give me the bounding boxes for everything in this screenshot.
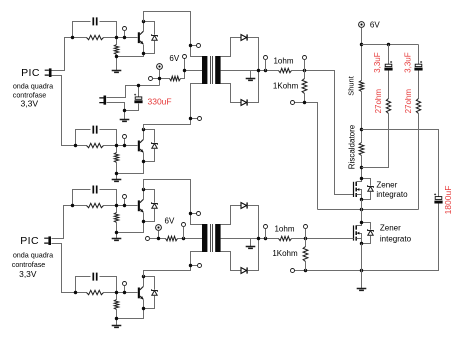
svg-text:6V: 6V — [165, 216, 175, 225]
svg-text:onda quadra: onda quadra — [13, 251, 53, 260]
svg-text:6V: 6V — [169, 54, 179, 63]
svg-text:6V: 6V — [370, 20, 380, 29]
svg-text:onda quadra: onda quadra — [13, 81, 53, 90]
svg-text:Shunt: Shunt — [347, 75, 356, 96]
svg-text:integrato: integrato — [376, 190, 408, 199]
svg-text:1Kohm: 1Kohm — [272, 249, 298, 258]
svg-text:1ohm: 1ohm — [274, 224, 294, 233]
svg-text:3,3V: 3,3V — [20, 98, 38, 108]
svg-text:1ohm: 1ohm — [273, 56, 293, 65]
svg-text:Zener: Zener — [380, 224, 401, 233]
svg-text:3,3V: 3,3V — [19, 269, 37, 279]
svg-text:PIC: PIC — [20, 235, 39, 247]
svg-text:1Kohm: 1Kohm — [273, 81, 299, 90]
svg-text:27ohm: 27ohm — [404, 89, 413, 114]
svg-text:27ohm: 27ohm — [374, 89, 383, 114]
svg-text:Zener: Zener — [376, 181, 397, 190]
svg-text:integrato: integrato — [380, 235, 412, 244]
svg-text:1800uF: 1800uF — [443, 186, 453, 215]
svg-text:330uF: 330uF — [148, 96, 172, 106]
svg-text:3,3uF: 3,3uF — [403, 52, 412, 73]
svg-text:3,3uF: 3,3uF — [373, 52, 382, 73]
svg-text:PIC: PIC — [21, 67, 40, 79]
svg-text:Riscaldatore: Riscaldatore — [348, 124, 357, 169]
